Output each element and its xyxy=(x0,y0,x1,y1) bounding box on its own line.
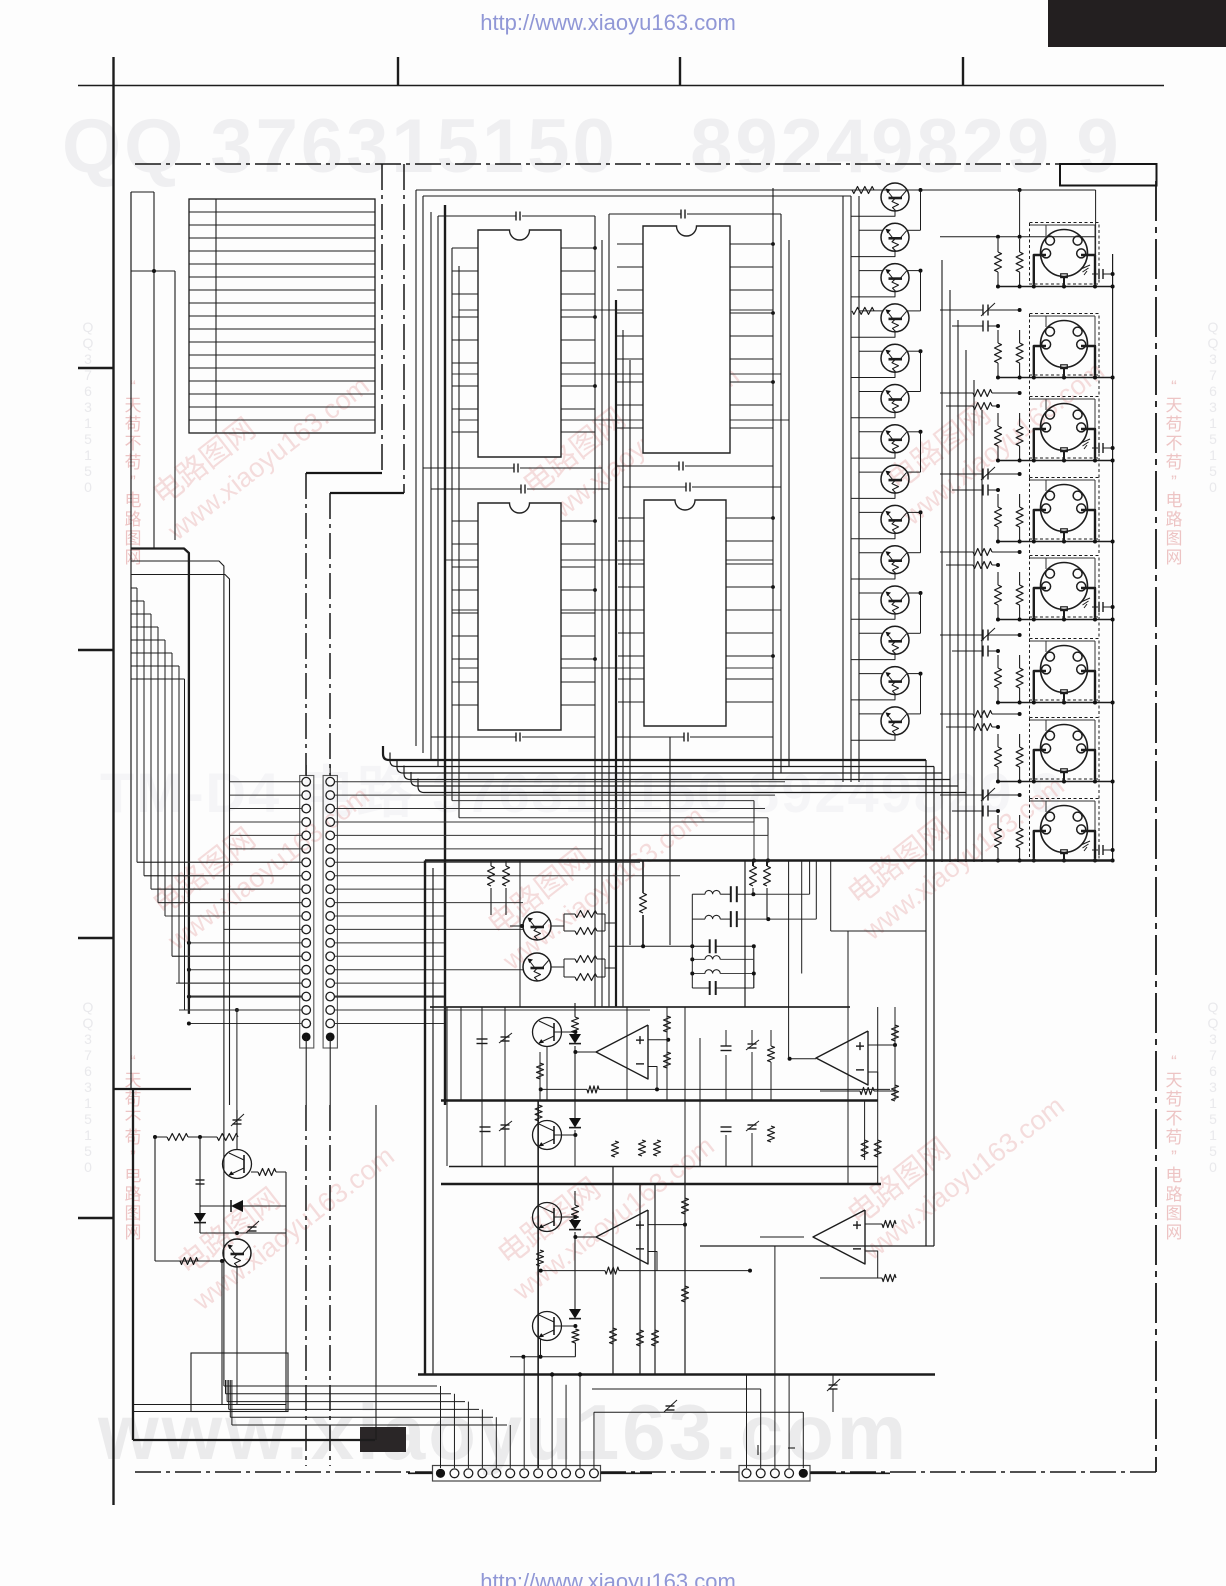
svg-text:http://www.xiaoyu163.com: http://www.xiaoyu163.com xyxy=(480,10,736,35)
svg-text:http://www.xiaoyu163.com: http://www.xiaoyu163.com xyxy=(480,1569,736,1586)
svg-text:www.xiaoyu163.com: www.xiaoyu163.com xyxy=(97,1388,909,1476)
svg-text:QQ 376315150 89249829 9: QQ 376315150 89249829 9 xyxy=(62,104,1122,189)
svg-text:QQ376315150: QQ376315150 xyxy=(83,999,94,1175)
svg-text:QQ376315150: QQ376315150 xyxy=(1208,319,1219,495)
svg-text:QQ376315150: QQ376315150 xyxy=(83,319,94,495)
svg-text:QQ376315150: QQ376315150 xyxy=(1208,999,1219,1175)
